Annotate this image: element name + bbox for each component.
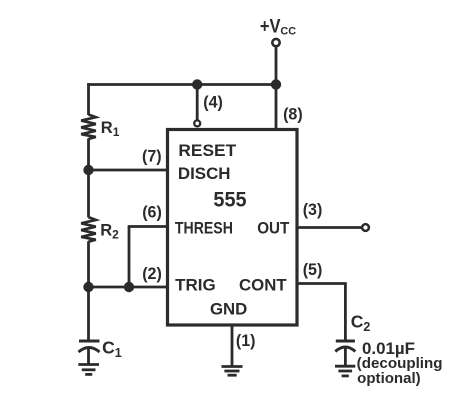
wire pin 4 (RESET) xyxy=(196,85,199,121)
capacitor C2 curved plate xyxy=(335,347,355,352)
svg-text:C1: C1 xyxy=(102,338,122,360)
wire pin 7 (DISCH) xyxy=(89,169,168,172)
svg-text:(7): (7) xyxy=(142,148,162,166)
svg-text:R2: R2 xyxy=(100,221,119,241)
wire C1 to ground xyxy=(87,349,90,365)
ground symbol (C1) xyxy=(78,365,99,375)
junction TRIG / THRESH connector xyxy=(124,282,134,292)
wire pin 6 (THRESH) xyxy=(128,225,168,228)
svg-text:CC: CC xyxy=(280,26,296,38)
output terminal xyxy=(362,224,369,231)
capacitor C2 top plate xyxy=(336,340,355,343)
junction R2-C1 / pin 2 xyxy=(83,282,93,292)
wire left rail: R2 to C1 xyxy=(87,241,90,340)
wire pin 1 (GND) xyxy=(231,325,234,367)
wire THRESH-TRIG connector xyxy=(128,227,131,288)
svg-text:TRIG: TRIG xyxy=(175,276,216,294)
svg-text:GND: GND xyxy=(210,301,247,319)
wire pin 2 (TRIG) xyxy=(89,286,168,289)
ground symbol (C2) xyxy=(335,366,355,376)
capacitor C1 top plate xyxy=(79,340,100,343)
resistor R2 xyxy=(81,217,96,242)
svg-text:optional): optional) xyxy=(357,370,421,387)
capacitor C1 curved plate xyxy=(79,348,100,353)
wire pin 3 (OUT) xyxy=(297,226,362,229)
svg-text:(5): (5) xyxy=(303,261,323,279)
svg-text:(6): (6) xyxy=(142,203,162,221)
svg-text:RESET: RESET xyxy=(178,142,236,160)
wire pin 5 (CONT) xyxy=(297,284,345,340)
svg-text:CONT: CONT xyxy=(239,276,287,294)
resistor R1 xyxy=(81,115,96,140)
svg-text:(8): (8) xyxy=(283,106,303,124)
junction pin 4 / top rail xyxy=(192,79,202,89)
junction Vcc / top rail xyxy=(271,79,281,89)
pin 4 reset inversion bubble xyxy=(194,120,200,126)
wire Vcc drop to pin 8 xyxy=(275,47,278,130)
wire left rail: top rail to R1 xyxy=(87,83,90,115)
svg-text:R1: R1 xyxy=(101,119,120,139)
ground symbol (pin 1) xyxy=(222,367,243,376)
svg-text:OUT: OUT xyxy=(257,220,289,238)
svg-text:(2): (2) xyxy=(142,265,162,283)
wire top rail xyxy=(87,83,276,86)
svg-text:DISCH: DISCH xyxy=(178,165,231,183)
IC U1 555 box xyxy=(168,130,298,326)
svg-text:C2: C2 xyxy=(351,312,371,334)
svg-text:+V: +V xyxy=(260,17,281,38)
svg-text:(4): (4) xyxy=(203,94,223,112)
wire left rail: R1 to R2 xyxy=(87,139,90,218)
power +Vcc terminal xyxy=(272,39,279,46)
junction R1-R2 / pin 7 xyxy=(83,165,93,175)
svg-text:(3): (3) xyxy=(303,201,323,219)
svg-text:(1): (1) xyxy=(236,332,256,350)
svg-text:THRESH: THRESH xyxy=(175,220,233,238)
svg-text:555: 555 xyxy=(213,188,246,212)
wire C2 to ground xyxy=(344,349,347,367)
